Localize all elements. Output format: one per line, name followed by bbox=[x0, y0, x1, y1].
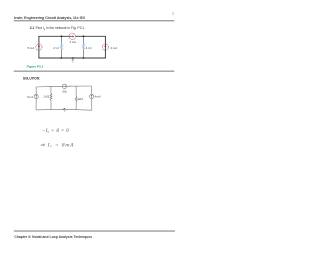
resistor 4k branch wire bbox=[75, 86, 77, 110]
svg-text:4mA: 4mA bbox=[94, 94, 101, 98]
current source 2m circle bbox=[62, 84, 66, 88]
svg-text:Chapter 3: Nodal and Loop Anal: Chapter 3: Nodal and Loop Analysis Techn… bbox=[14, 235, 92, 239]
resistor 4k zigzag bbox=[75, 97, 77, 102]
svg-text:2kΩ: 2kΩ bbox=[43, 95, 49, 99]
wire top rail left of 2m source bbox=[36, 85, 62, 88]
header rule bbox=[14, 19, 175, 22]
current source 2mA circle bbox=[69, 33, 75, 39]
handwritten equation 1 bbox=[40, 122, 74, 149]
wire bottom rail bbox=[38, 57, 106, 59]
wire left edge bbox=[35, 87, 37, 94]
node dot top of R1 bbox=[61, 35, 63, 37]
svg-text:4kΩ: 4kΩ bbox=[77, 97, 83, 101]
current source 2mA arrow bbox=[72, 35, 74, 37]
current source 4mA circle bbox=[102, 44, 108, 50]
current source 4mA arrow bbox=[91, 95, 92, 98]
ground symbol bbox=[72, 58, 74, 60]
wire right edge upper bbox=[91, 86, 93, 94]
wire right edge lower bbox=[91, 99, 93, 111]
svg-text:1: 1 bbox=[172, 11, 174, 15]
node dot right of 2m source bbox=[69, 86, 70, 87]
svg-text:5 mA: 5 mA bbox=[27, 46, 34, 50]
svg-text:Figure P3.1: Figure P3.1 bbox=[27, 65, 44, 69]
current source 5mA arrow bbox=[36, 95, 37, 98]
wire top rail right of 2m source bbox=[67, 85, 92, 87]
wire right edge bbox=[104, 36, 106, 58]
node dot top of 2k bbox=[50, 86, 51, 87]
current source 4mA arrow bbox=[104, 45, 106, 47]
node dot bottom ground tap bbox=[72, 57, 74, 59]
svg-text:4 kΩ: 4 kΩ bbox=[86, 46, 93, 50]
footer rule bbox=[14, 230, 175, 233]
resistor R1 2k zigzag bbox=[60, 44, 62, 50]
wire left edge lower bbox=[35, 99, 37, 110]
svg-text:⇒ Iₒ = 8mA: ⇒ Iₒ = 8mA bbox=[40, 142, 74, 148]
svg-text:4 mA: 4 mA bbox=[110, 46, 117, 50]
current source 5mA arrow bbox=[38, 45, 40, 47]
svg-text:2 mA: 2 mA bbox=[70, 40, 77, 44]
svg-text:5mA: 5mA bbox=[27, 95, 34, 99]
svg-text:Irwin, Engineering Circuit Ana: Irwin, Engineering Circuit Analysis, 11e… bbox=[14, 16, 86, 20]
resistor R2 4k zigzag bbox=[82, 43, 84, 49]
node dot bottom of R2 bbox=[82, 57, 84, 59]
wire top rail left of 2mA source bbox=[38, 35, 71, 37]
current source 5mA circle bbox=[34, 94, 38, 98]
node dot top of R2 bbox=[83, 35, 85, 37]
resistor 2k branch wire bbox=[50, 86, 52, 109]
svg-text:3.1 Find Io in the network in: 3.1 Find Io in the network in Fig. P3.1. bbox=[30, 26, 85, 31]
node dot bottom of R1 bbox=[60, 57, 62, 59]
wire bottom rail bbox=[36, 108, 92, 111]
resistor R2 4k branch wire bbox=[83, 36, 85, 58]
current source 4mA circle bbox=[90, 94, 94, 98]
current source 5mA circle bbox=[36, 44, 42, 50]
current source 2m arrow bbox=[63, 86, 66, 87]
svg-text:SOLUTION:: SOLUTION: bbox=[23, 77, 40, 81]
svg-text:2 kΩ: 2 kΩ bbox=[53, 46, 59, 50]
wire top rail right of 2mA source bbox=[76, 35, 106, 37]
resistor R1 2k branch wire bbox=[61, 36, 63, 58]
svg-text:−Iₒ + 8 = 0: −Iₒ + 8 = 0 bbox=[42, 128, 69, 134]
mid rule bbox=[14, 70, 175, 73]
wire left edge bbox=[38, 36, 40, 58]
ground symbol bbox=[63, 108, 65, 109]
resistor 2k zigzag bbox=[50, 94, 52, 101]
